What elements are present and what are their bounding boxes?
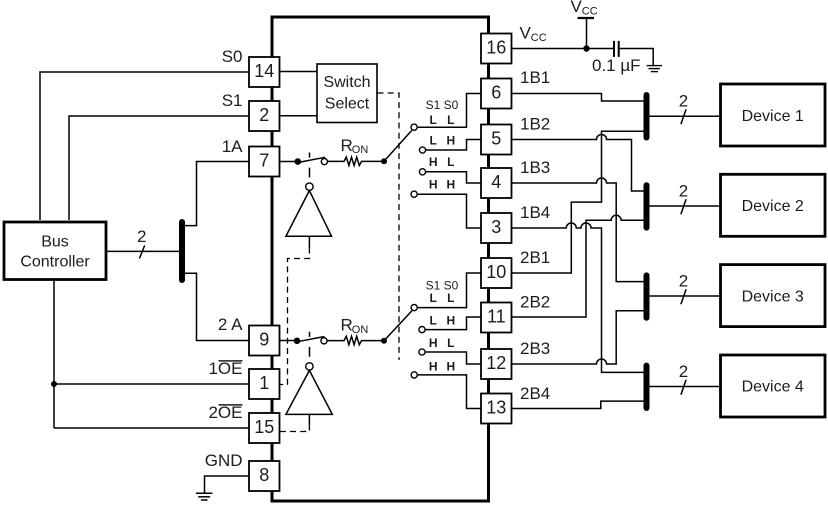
device 4 box [721, 355, 826, 417]
svg-text:L: L [447, 336, 454, 350]
svg-text:L: L [447, 155, 454, 169]
svg-text:CC: CC [582, 6, 598, 18]
svg-text:V: V [571, 0, 583, 16]
wire: switch 1 contact HH to pin 3 [417, 194, 481, 228]
junction 1OE [51, 381, 57, 387]
svg-text:H: H [446, 314, 455, 328]
svg-text:V: V [520, 24, 532, 43]
wire VCC: pin 16 to capacitor [512, 48, 614, 50]
pin 3 box [481, 213, 512, 243]
switch SW2 contact LL [411, 305, 417, 311]
wire 2A: bus stub to pin 9 [184, 273, 249, 340]
svg-text:11: 11 [487, 306, 506, 326]
svg-text:H: H [429, 336, 438, 350]
svg-text:L: L [430, 134, 437, 148]
svg-text:L: L [430, 314, 437, 328]
wire 2B3: pin 12 to bus bar 3 (hops over 1B4) [512, 311, 644, 364]
wire: switch 1 contact LL to pin 6 [417, 94, 481, 128]
inverter U3 (switch 2 enable) [286, 363, 332, 415]
switch SW1 hinge junction [295, 158, 302, 165]
pin 4 box [481, 168, 512, 198]
svg-text:2: 2 [679, 272, 688, 291]
switch SW2 selector blade to contact LL [384, 311, 412, 341]
pin 11 box [481, 303, 512, 333]
switch SW1 armature contact [321, 159, 327, 165]
pin 13 box [481, 394, 512, 424]
svg-text:S1: S1 [222, 91, 243, 110]
label 2OE with overline [208, 403, 242, 422]
svg-text:2: 2 [137, 227, 146, 246]
device 2 box [721, 174, 826, 236]
svg-text:7: 7 [259, 150, 269, 170]
wire: bus controller to bus stub [108, 250, 183, 252]
svg-text:ON: ON [352, 324, 369, 336]
switch SW2: wire pin 9 to hinge [280, 340, 297, 342]
wire: bus bar 4 to device 4 [649, 386, 720, 388]
svg-text:1A: 1A [222, 137, 243, 156]
svg-text:H: H [446, 178, 455, 192]
svg-text:5: 5 [491, 128, 501, 148]
switch 2 table row L L [430, 291, 455, 305]
pin 15 box [249, 413, 280, 443]
svg-text:6: 6 [491, 82, 501, 102]
capacitor C1 0.1uF [592, 41, 641, 75]
inverter U2 (switch 1 enable) [286, 183, 332, 236]
switch SW2 hinge junction [294, 338, 301, 345]
svg-text:Bus: Bus [41, 234, 69, 251]
svg-text:Device 4: Device 4 [742, 379, 804, 396]
switch SW2 blade [300, 337, 325, 342]
svg-text:12: 12 [486, 353, 506, 373]
wire: bus bar 1 to device 1 [649, 115, 720, 117]
svg-text:H: H [429, 155, 438, 169]
bus bar 3 [644, 275, 650, 317]
svg-text:L: L [447, 291, 454, 305]
svg-text:2B4: 2B4 [520, 384, 550, 403]
wire 1B3: pin 4 to bus bar 3 (hops over 2B1) [512, 178, 644, 282]
pin 2 box [249, 101, 280, 131]
bus width label 2 (device 2) [679, 182, 688, 215]
pin 14 box [249, 57, 280, 87]
svg-text:3: 3 [491, 217, 501, 237]
resistor R_ON (switch 2) [327, 316, 381, 345]
wire S0: bus controller to pin 14 [40, 72, 249, 220]
svg-text:Controller: Controller [20, 254, 90, 271]
svg-text:0.1 µF: 0.1 µF [592, 56, 641, 75]
svg-text:S0: S0 [222, 47, 243, 66]
switch SW2 armature contact [321, 338, 327, 344]
svg-text:S1 S0: S1 S0 [426, 98, 459, 112]
svg-text:1B1: 1B1 [520, 68, 550, 87]
wire: switch 2 contact LL to pin 10 [417, 273, 481, 308]
ground symbol (bottom) [196, 493, 213, 500]
switch SW2 contact HH [411, 372, 417, 378]
svg-text:L: L [447, 113, 454, 127]
switch 1 table row L H [430, 134, 456, 148]
switch SW2 contact LH [419, 327, 425, 333]
wire 1B2: pin 5 to bus bar 2 (hops over 2B1) [512, 135, 644, 192]
wire 1OE: to pin 1 [54, 383, 249, 385]
pin 9 box [249, 326, 280, 356]
wire S1: bus controller to pin 2 [69, 116, 249, 220]
svg-text:1B4: 1B4 [520, 203, 550, 222]
wire 1B4: pin 3 to bus bar 4 (hops over 2B1 and 2B2) [512, 223, 644, 372]
svg-text:13: 13 [486, 397, 506, 417]
dashed control: inverter U2 input to pin 1 [280, 236, 310, 384]
dashed control: switch 2 blade to inverter U3 output [309, 332, 311, 357]
wire 2B2: pin 11 to bus bar 2 (hops over 1B3) [512, 215, 644, 317]
switch SW1 selector blade to contact LL [384, 130, 412, 161]
svg-text:15: 15 [254, 417, 274, 437]
pin 12 box [481, 349, 512, 379]
svg-text:8: 8 [259, 465, 269, 485]
svg-text:1OE: 1OE [208, 359, 242, 378]
bus width label 2 (device 1) [679, 92, 688, 125]
label VCC at pin 16 [520, 24, 547, 45]
switch SW1 blade [301, 157, 326, 162]
svg-text:L: L [430, 113, 437, 127]
svg-text:2: 2 [259, 105, 269, 125]
wire: capacitor to ground [620, 49, 654, 66]
switch 2 table row H L [429, 336, 455, 350]
svg-text:H: H [429, 178, 438, 192]
pin 1 box [249, 369, 280, 399]
switch 2 table row H H [429, 360, 455, 374]
pin 6 box [481, 79, 512, 109]
pin 8 box [249, 461, 280, 491]
svg-text:2 A: 2 A [218, 315, 243, 334]
switch 1 table row H H [429, 178, 455, 192]
wire 2B1: pin 10 to bus bar 1 [512, 131, 644, 273]
ground symbol (top right) [647, 66, 662, 72]
wire: bus bar 3 to device 3 [649, 295, 720, 297]
svg-text:ON: ON [352, 144, 369, 156]
device 3 box [721, 265, 826, 327]
wire: switch 1 contact HL to pin 4 [426, 172, 481, 183]
svg-text:14: 14 [254, 61, 274, 81]
svg-text:2: 2 [679, 362, 688, 381]
svg-text:L: L [430, 291, 437, 305]
svg-text:Device 2: Device 2 [742, 198, 804, 215]
label 1OE with overline [208, 359, 242, 378]
switch SW1: wire pin 7 to hinge [280, 161, 298, 163]
switch SW1 contact HH [411, 191, 417, 197]
bus bar 4 [644, 366, 650, 408]
dashed control: switch select to switches [378, 93, 400, 360]
wire GND: pin 8 to ground [205, 476, 250, 493]
svg-text:9: 9 [259, 329, 269, 349]
svg-text:Device 3: Device 3 [742, 289, 804, 306]
VCC power symbol [571, 0, 598, 49]
pin 7 box [249, 147, 280, 177]
junction VCC [583, 45, 589, 51]
svg-text:2: 2 [679, 182, 688, 201]
svg-text:1: 1 [259, 373, 269, 393]
switch select box [317, 64, 377, 123]
switch 1 table row L L [430, 113, 455, 127]
switch SW1 contact LH [419, 147, 425, 153]
bus width label 2 (device 4) [679, 362, 688, 395]
svg-text:10: 10 [486, 262, 506, 282]
bus bar 2 [644, 185, 650, 227]
switch 1 table row H L [429, 155, 455, 169]
switch SW1 rotor junction [381, 158, 387, 164]
wire: switch 2 contact HL to pin 12 [425, 352, 481, 364]
svg-text:1B2: 1B2 [520, 115, 550, 134]
svg-text:H: H [429, 360, 438, 374]
svg-text:H: H [446, 360, 455, 374]
bus bar 1 [644, 95, 650, 138]
wire: bus bar 2 to device 2 [649, 205, 720, 207]
pin 10 box [481, 258, 512, 288]
switch SW1 contact LL [411, 124, 417, 130]
wire: switch 2 contact HH to pin 13 [417, 375, 481, 409]
svg-text:Select: Select [325, 96, 370, 113]
svg-text:GND: GND [205, 451, 243, 470]
dashed control: inverter U3 input to pin 15 [280, 414, 310, 431]
device 1 box [721, 84, 826, 146]
svg-text:2OE: 2OE [208, 403, 242, 422]
svg-text:1B3: 1B3 [520, 158, 550, 177]
resistor R_ON (switch 1) [328, 136, 382, 166]
wire 2OE: to pin 15 [54, 427, 249, 429]
wire: pin 2 to switch select [280, 115, 318, 117]
IC U1 outline [272, 17, 489, 501]
wire: pin 14 to switch select [280, 71, 318, 73]
svg-text:16: 16 [486, 37, 506, 57]
svg-text:2: 2 [679, 92, 688, 111]
svg-text:4: 4 [491, 172, 501, 192]
pin 16 box [481, 34, 512, 64]
bus width label 2 (device 3) [679, 272, 688, 305]
wire: switch 2 contact LH to pin 11 [425, 317, 481, 330]
bus stub bar [179, 222, 185, 280]
svg-text:Device 1: Device 1 [742, 108, 804, 125]
switch SW1 contact HL [419, 169, 425, 175]
svg-text:H: H [446, 134, 455, 148]
svg-text:2B1: 2B1 [520, 248, 550, 267]
switch SW2 rotor junction [381, 338, 387, 344]
pin 5 box [481, 125, 512, 155]
wire: switch 1 contact LH to pin 5 [426, 140, 481, 151]
svg-text:2B3: 2B3 [520, 339, 550, 358]
switch 2 table row L H [430, 314, 456, 328]
wire: bus controller bottom vertical [53, 280, 55, 428]
dashed control: switch 1 blade to inverter U2 output [309, 153, 311, 178]
bus width label 2 (bus controller) [137, 227, 146, 259]
svg-text:2B2: 2B2 [520, 293, 550, 312]
switch SW2 contact HL [419, 349, 425, 355]
bus controller box [4, 222, 106, 280]
wire 1A: pin 7 to bus stub [184, 162, 249, 226]
svg-text:CC: CC [531, 32, 547, 44]
svg-text:Switch: Switch [323, 74, 370, 91]
wire 2B4: pin 13 to bus bar 4 [512, 401, 644, 408]
wire 1B1: pin 6 to bus bar 1 [512, 94, 644, 102]
